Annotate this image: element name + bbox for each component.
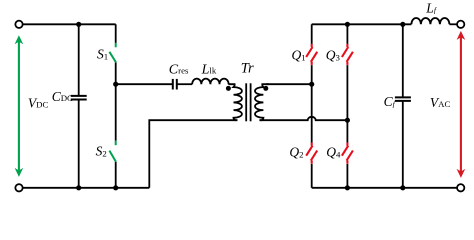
node secondary dot: [263, 86, 268, 91]
svg-text:Llk: Llk: [201, 62, 217, 77]
node secondary bottom junction: [345, 118, 350, 123]
svg-text:Cres: Cres: [169, 62, 189, 77]
svg-text:VAC: VAC: [430, 95, 451, 110]
wire top-left rail: [23, 23, 116, 25]
node right-leg top junction: [345, 22, 350, 27]
wire S-branch middle: [115, 62, 117, 140]
wire S-branch lower: [115, 162, 117, 188]
switch S2: [109, 141, 116, 162]
wire Lf to terminal: [449, 23, 456, 25]
capacitor Cf: [395, 24, 411, 188]
wire bridge left leg bottom: [311, 164, 313, 188]
node top CDC junction: [76, 22, 81, 27]
svg-text:S2: S2: [96, 143, 107, 158]
VAC arrow: [457, 31, 466, 178]
svg-text:S1: S1: [97, 47, 108, 62]
svg-text:VDC: VDC: [28, 95, 49, 110]
wire bottom-left rail: [23, 187, 150, 189]
wire bridge right leg bottom: [346, 164, 348, 188]
node primary dot: [226, 86, 231, 91]
wire middle link: [116, 83, 172, 85]
wire bridge left leg top: [311, 24, 313, 44]
inductor Lf: [411, 18, 449, 24]
node Cf top junction: [400, 22, 405, 27]
switch S1: [109, 43, 116, 63]
svg-text:Q4: Q4: [326, 144, 341, 159]
switch Q4: [342, 143, 353, 164]
terminal bottom-left: [15, 184, 22, 191]
switch Q1: [306, 44, 317, 65]
wire bridge right leg mid: [346, 65, 348, 143]
svg-text:Cf: Cf: [384, 94, 397, 109]
terminal top-left: [15, 21, 22, 28]
svg-text:Q3: Q3: [326, 47, 341, 62]
switch Q3: [342, 44, 353, 65]
svg-text:Q1: Q1: [292, 47, 306, 62]
inductor Llk: [192, 79, 228, 85]
node right-leg bottom junction: [345, 185, 350, 190]
wire top-right rail: [312, 23, 412, 25]
wire bridge right leg top: [346, 24, 348, 44]
svg-text:CDC: CDC: [52, 89, 73, 104]
wire primary return bottom: [149, 120, 236, 188]
VDC arrow: [15, 35, 24, 177]
terminal bottom-right: [457, 184, 464, 191]
node Cf bottom junction: [400, 185, 405, 190]
wire bridge left leg mid: [311, 65, 313, 143]
svg-text:Lf: Lf: [425, 0, 438, 15]
transformer Tr: [228, 83, 347, 121]
node secondary top junction: [309, 82, 314, 87]
capacitor CDC: [71, 24, 87, 188]
wire bottom-right rail: [312, 187, 457, 189]
node bottom CDC junction: [76, 185, 81, 190]
svg-text:Tr: Tr: [241, 61, 254, 77]
terminal top-right: [457, 21, 464, 28]
node S mid junction: [113, 82, 118, 87]
capacitor Cres: [173, 79, 177, 90]
wire Cres to Llk: [177, 83, 192, 85]
node bottom S junction: [113, 185, 118, 190]
wire S-branch upper: [115, 24, 117, 43]
svg-text:Q2: Q2: [289, 144, 303, 159]
switch Q2: [306, 143, 317, 164]
